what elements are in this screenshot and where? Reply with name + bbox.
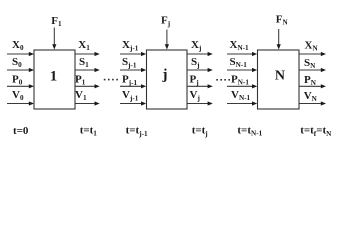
wire S0 [7,69,30,71]
wire VN-1 [227,103,253,105]
wire Sj-1 [120,69,142,71]
wire PN-1 [227,85,253,87]
svg-text:1: 1 [50,69,58,85]
wire Pj [187,85,208,87]
ellipsis dots group 2 [216,79,230,81]
wire Sj [187,69,208,71]
svg-text:t=0: t=0 [13,125,29,137]
wire PN [299,85,322,87]
wire SN [299,69,322,71]
wire Pj-1 [120,85,142,87]
wire XN [299,53,322,55]
wire V0 [7,103,30,105]
wire VN [299,103,322,105]
wire P0 [7,85,30,87]
wire Vj-1 [120,103,142,105]
wire X1 [75,53,95,55]
svg-text:j: j [162,67,168,83]
arrow F1 into box 1 [53,28,55,46]
box j (stage j) [147,50,188,109]
wire Xj-1 [120,53,142,55]
arrow FN into box N [278,29,280,46]
wire S1 [75,69,95,71]
wire Xj [187,53,208,55]
svg-text:N: N [275,69,285,84]
box N (stage N) [258,50,300,109]
wire P1 [75,85,95,87]
wire X0 [7,53,30,55]
wire V1 [75,103,95,105]
wire Vj [187,103,208,105]
arrow Fj into box j [166,30,168,46]
wire XN-1 [227,53,253,55]
wire SN-1 [227,69,253,71]
ellipsis dots group 1 [104,79,118,81]
box 1 (stage 1) [34,50,75,109]
